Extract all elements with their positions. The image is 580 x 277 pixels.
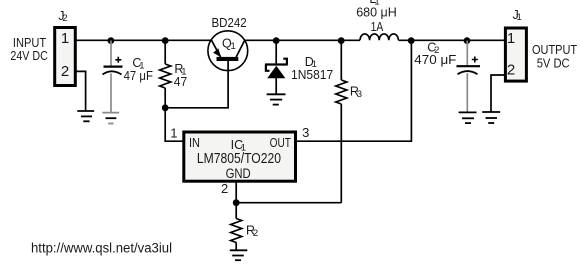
svg-text:1A: 1A	[371, 20, 384, 34]
label J2	[58, 9, 67, 24]
wire base node to IC1 IN pin 1	[165, 108, 182, 141]
wire rail from L1 right to J1 pin 1	[399, 39, 506, 41]
svg-text:1: 1	[61, 30, 69, 47]
svg-text:47: 47	[174, 75, 188, 89]
svg-text:1: 1	[170, 125, 177, 140]
resistor R2	[231, 203, 242, 250]
ground C2	[459, 112, 477, 123]
op-amp IC1 LM7805/TO220 box	[184, 132, 296, 181]
svg-text:OUTPUT: OUTPUT	[532, 43, 577, 57]
svg-text:2: 2	[507, 62, 515, 79]
label BD242	[212, 16, 247, 30]
ground C1	[102, 113, 119, 124]
ground J1 pin 2	[482, 112, 500, 123]
label 680 uH	[356, 6, 397, 20]
pin label 1	[170, 125, 177, 140]
ground D1	[267, 94, 286, 104]
svg-text:470 μF: 470 μF	[414, 53, 456, 67]
connector J1	[505, 28, 526, 81]
wire C1 upper lead	[110, 41, 112, 66]
node D1 tap on rail	[273, 37, 280, 44]
label R2	[246, 224, 258, 239]
node GND junction	[233, 199, 240, 206]
label 1A	[371, 20, 384, 34]
wire IC1 OUT pin 3 to rail	[297, 41, 412, 142]
capacitor C1	[103, 57, 123, 75]
label INPUT 24V DC	[10, 36, 48, 63]
wire J2 pin 2 to ground	[77, 71, 86, 110]
node L1 right	[408, 37, 415, 44]
wire input rail from J2 pin 1 to Q1 emitter	[75, 39, 212, 41]
wire IC1 GND pin 2 down	[235, 182, 237, 203]
node R1 tap on rail	[162, 37, 169, 44]
wire base node to Q1 base	[165, 61, 228, 108]
resistor R3	[336, 41, 347, 203]
label OUTPUT 5V DC	[532, 43, 577, 70]
svg-text:24V DC: 24V DC	[10, 49, 48, 63]
svg-text:OUT: OUT	[270, 136, 292, 150]
wire C2 upper lead	[466, 41, 468, 66]
wire R3 bottom to GND node	[236, 202, 341, 204]
label C1 value 47 uF	[124, 56, 154, 83]
svg-text:http://www.qsl.net/va3iul: http://www.qsl.net/va3iul	[31, 240, 172, 255]
inductor L1	[360, 34, 398, 40]
svg-text:IN: IN	[189, 136, 200, 150]
diode D1 (Schottky 1N5817)	[265, 41, 288, 94]
transistor Q1	[208, 31, 248, 71]
svg-text:47 μF: 47 μF	[124, 69, 154, 83]
label L1 (clipped at top)	[369, 0, 379, 8]
label D1 1N5817	[291, 55, 333, 82]
capacitor C2	[457, 57, 481, 75]
wire C2 lower lead	[466, 73, 468, 112]
node base junction (R1 bottom / IC IN)	[162, 104, 169, 111]
pin label 3	[302, 125, 309, 140]
node C2 tap on rail	[464, 37, 471, 44]
svg-text:5V DC: 5V DC	[537, 56, 570, 70]
wire rail from Q1 collector to L1 left	[245, 39, 361, 41]
ground J2 pin 2	[77, 111, 94, 121]
label C2 value 470 uF	[414, 41, 456, 67]
svg-text:1: 1	[507, 30, 515, 47]
svg-text:2: 2	[61, 63, 69, 80]
label Q1	[222, 37, 236, 52]
connector J2	[55, 28, 76, 86]
node L1 left	[338, 37, 345, 44]
svg-text:2: 2	[221, 181, 228, 196]
svg-text:1N5817: 1N5817	[291, 68, 333, 82]
svg-text:LM7805/TO220: LM7805/TO220	[197, 151, 281, 167]
wire C1 lower lead	[110, 74, 112, 113]
resistor R1	[160, 41, 171, 108]
node C1 tap on rail	[108, 37, 115, 44]
label URL http://www.qsl.net/va3iul	[31, 240, 172, 255]
svg-text:680 μH: 680 μH	[356, 6, 397, 20]
svg-text:GND: GND	[226, 166, 251, 181]
svg-text:INPUT: INPUT	[13, 36, 47, 50]
label R1 value 47	[174, 62, 188, 89]
label J1	[513, 8, 522, 23]
svg-text:3: 3	[302, 125, 309, 140]
ground R2	[230, 250, 248, 260]
label R3	[350, 85, 362, 100]
wire J1 pin 2 to ground	[491, 75, 504, 112]
svg-text:BD242: BD242	[212, 16, 247, 30]
pin label 2	[221, 181, 228, 196]
